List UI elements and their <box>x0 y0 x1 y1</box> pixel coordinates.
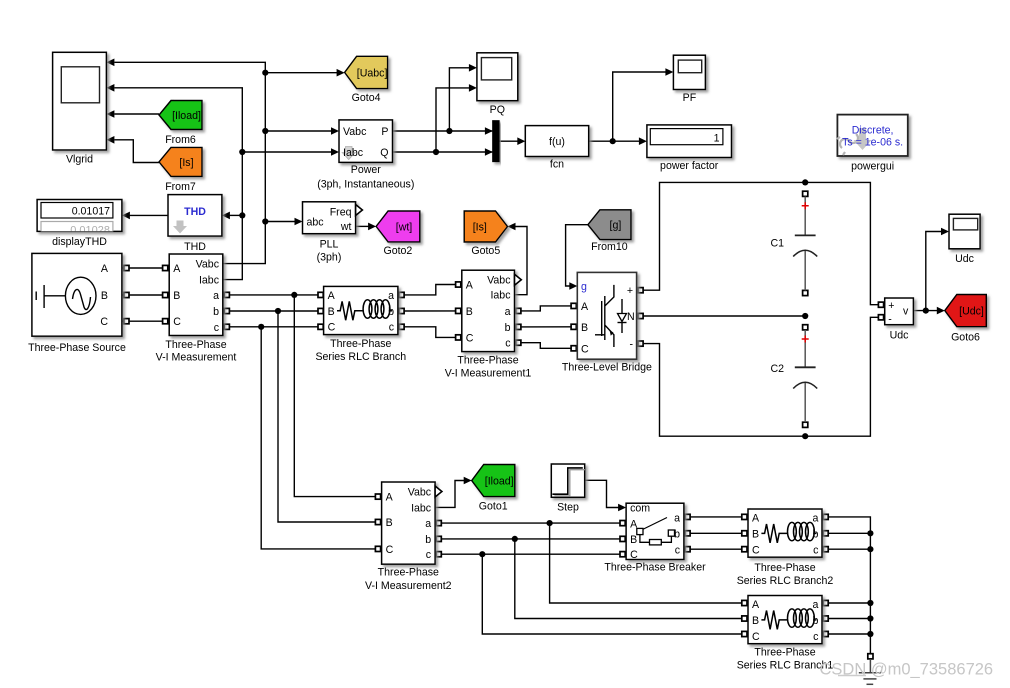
wire phase a drop to RLC branch1 <box>550 523 748 603</box>
Power (3ph Instantaneous) block <box>339 120 393 162</box>
svg-text:[Uabc]: [Uabc] <box>357 67 388 79</box>
svg-text:c: c <box>813 631 819 643</box>
svg-text:B: B <box>173 290 180 302</box>
svg-text:A: A <box>752 599 760 611</box>
wire P output to mux and PQ scope <box>393 130 493 132</box>
THD block <box>168 195 222 237</box>
display displayTHD <box>37 200 122 232</box>
wire From10 to bridge gate <box>566 225 588 286</box>
svg-text:C: C <box>328 322 336 334</box>
svg-text:C: C <box>466 332 474 344</box>
svg-text:-: - <box>629 339 633 351</box>
capacitor C2 <box>793 330 817 422</box>
mux block <box>493 121 499 161</box>
wire phase A drop to measurement2 <box>294 295 381 497</box>
wire Q output to mux and PQ scope <box>393 151 493 153</box>
svg-text:Three-Phase: Three-Phase <box>165 339 226 351</box>
svg-text:PQ: PQ <box>490 104 505 116</box>
svg-text:V-I Measurement: V-I Measurement <box>156 352 237 364</box>
wire phase b measurement1 to bridge B <box>515 326 578 328</box>
From10 tag [g] <box>588 210 631 240</box>
wire fcn to power factor display and PF scope <box>589 140 641 142</box>
svg-text:1: 1 <box>714 132 720 144</box>
wire phase B source to measurement <box>122 294 169 296</box>
svg-text:C2: C2 <box>770 363 784 375</box>
wire RLC branch1 c to bus <box>822 633 870 635</box>
svg-text:c: c <box>505 338 511 350</box>
svg-text:fcn: fcn <box>550 159 564 171</box>
fcn block f(u) <box>525 126 588 157</box>
svg-text:Iabc: Iabc <box>199 275 220 287</box>
svg-text:A: A <box>173 263 181 275</box>
svg-text:f(u): f(u) <box>549 136 565 148</box>
svg-text:A: A <box>752 512 760 524</box>
svg-text:Three-Phase: Three-Phase <box>754 562 815 574</box>
svg-text:C: C <box>100 316 108 328</box>
svg-text:B: B <box>581 322 588 334</box>
svg-text:displayTHD: displayTHD <box>52 236 107 248</box>
svg-text:Step: Step <box>557 502 579 514</box>
wire Iabc1 to Goto5 <box>514 227 528 295</box>
svg-text:C: C <box>630 549 638 561</box>
Goto4 tag [Uabc] <box>345 56 388 88</box>
wire phase C drop to measurement2 <box>261 327 381 549</box>
From6 tag [Iload] <box>159 101 202 130</box>
svg-text:V-I Measurement1: V-I Measurement1 <box>445 368 532 380</box>
wire phase A source to measurement <box>122 267 169 269</box>
junction dots <box>262 70 268 76</box>
Goto2 tag [wt] <box>376 211 420 242</box>
power factor display <box>647 125 732 158</box>
svg-text:c: c <box>426 549 432 561</box>
wire phase b measurement to RLC branch <box>223 310 324 312</box>
svg-text:Freq: Freq <box>330 206 352 218</box>
electrical port markers <box>124 265 129 270</box>
wire phase a measurement2 to breaker A <box>435 522 626 524</box>
svg-text:Power: Power <box>351 164 381 176</box>
Three-Phase Source block <box>32 253 122 336</box>
wire phase b RLC branch to measurement1 <box>398 310 462 312</box>
Three-Phase Series RLC Branch block <box>324 286 398 334</box>
svg-text:abc: abc <box>307 217 325 229</box>
svg-text:Three-Phase Breaker: Three-Phase Breaker <box>604 562 706 574</box>
Three-Phase Series RLC Branch2 block <box>748 509 822 557</box>
PLL (3ph) block <box>303 202 356 234</box>
svg-text:Three-Phase Source: Three-Phase Source <box>28 342 126 354</box>
wire Goto4 branch <box>265 72 338 74</box>
Goto5 tag [Is] <box>464 211 507 242</box>
svg-text:B: B <box>752 529 759 541</box>
svg-text:a: a <box>388 290 394 302</box>
wire phase a measurement1 to bridge A <box>515 306 578 311</box>
svg-text:b: b <box>213 306 219 318</box>
svg-text:THD: THD <box>184 206 206 218</box>
svg-text:Iabc: Iabc <box>411 502 432 514</box>
svg-text:B: B <box>466 306 473 318</box>
svg-text:a: a <box>425 518 431 530</box>
svg-text:Iabc: Iabc <box>343 147 364 159</box>
svg-text:Discrete,: Discrete, <box>852 125 894 137</box>
wire phase b drop to RLC branch1 <box>515 539 748 619</box>
svg-text:Goto4: Goto4 <box>352 92 381 104</box>
svg-text:A: A <box>386 492 394 504</box>
svg-text:C1: C1 <box>770 238 784 250</box>
Three-Phase V-I Measurement1 block <box>462 270 515 351</box>
wire RLC branch1 a to bus <box>822 602 870 604</box>
svg-text:(3ph): (3ph) <box>317 252 342 264</box>
Step block <box>551 464 584 497</box>
svg-text:B: B <box>386 517 393 529</box>
svg-text:+: + <box>888 300 894 312</box>
svg-text:From7: From7 <box>165 181 196 193</box>
svg-text:c: c <box>214 322 220 334</box>
svg-text:[Iload]: [Iload] <box>172 110 201 122</box>
svg-text:Goto5: Goto5 <box>471 245 500 257</box>
wire breaker to RLC branch2 phase c <box>684 548 748 550</box>
Three-Level Bridge block <box>577 272 636 359</box>
svg-text:C: C <box>386 544 394 556</box>
wire phase c measurement2 to breaker C <box>435 553 626 555</box>
svg-text:wt: wt <box>340 221 352 233</box>
wire Udc measure output to scope and Goto6 <box>913 310 938 312</box>
wire phase a measurement to RLC branch <box>223 294 324 296</box>
wire bridge minus output to DC bus bottom <box>637 317 885 436</box>
wire Iload to Goto1 <box>435 481 465 508</box>
wire mux to fcn <box>499 140 519 142</box>
wire Power Vabc branch <box>265 130 332 132</box>
svg-text:B: B <box>101 290 108 302</box>
svg-text:b: b <box>388 306 394 318</box>
Goto6 tag [Udc] <box>945 295 987 327</box>
powergui block <box>837 115 907 156</box>
svg-text:From10: From10 <box>591 241 628 253</box>
wire From6 to Vlgrid <box>114 113 159 115</box>
svg-text:B: B <box>630 534 637 546</box>
Three-Phase V-I Measurement2 block <box>382 482 436 564</box>
voltage measurement Udc block <box>885 298 914 325</box>
wire bridge neutral to capacitor midpoint <box>637 315 806 317</box>
scope Vlgrid <box>53 52 107 150</box>
svg-text:[g]: [g] <box>610 220 622 232</box>
wire RLC branch2 c to bus <box>822 548 870 550</box>
svg-text:a: a <box>505 306 511 318</box>
svg-text:PLL: PLL <box>320 239 339 251</box>
wire Iabc net vertical trunk <box>114 88 242 280</box>
svg-text:A: A <box>581 301 589 313</box>
Three-Phase Series RLC Branch1 block <box>748 596 822 644</box>
signal arrows <box>106 59 114 67</box>
svg-text:PF: PF <box>683 92 697 104</box>
svg-text:[Iload]: [Iload] <box>485 476 514 488</box>
svg-text:b: b <box>505 322 511 334</box>
wire phase c drop to RLC branch1 <box>482 554 748 634</box>
svg-text:Three-Level Bridge: Three-Level Bridge <box>562 362 652 374</box>
svg-text:[wt]: [wt] <box>396 221 413 233</box>
svg-text:Three-Phase: Three-Phase <box>754 647 815 659</box>
svg-text:B: B <box>752 615 759 627</box>
wire phase a RLC branch to measurement1 <box>398 285 462 295</box>
capacitor C1 <box>793 197 817 291</box>
wire bridge plus output to DC bus top <box>637 182 885 304</box>
svg-text:a: a <box>213 290 219 302</box>
svg-text:Vabc: Vabc <box>487 275 511 287</box>
svg-text:C: C <box>581 343 589 355</box>
wire phase b measurement2 to breaker B <box>435 538 626 540</box>
svg-text:v: v <box>903 306 909 318</box>
svg-text:A: A <box>466 279 474 291</box>
wire Power Iabc branch <box>242 151 332 153</box>
wire RLC branch2 b to bus <box>822 532 870 534</box>
svg-text:B: B <box>328 306 335 318</box>
svg-text:C: C <box>752 631 760 643</box>
svg-text:a: a <box>674 512 680 524</box>
wire PLL abc branch <box>265 221 296 223</box>
scope Udc <box>949 214 980 249</box>
wire breaker to RLC branch2 phase b <box>684 532 748 534</box>
wire phase C source to measurement <box>122 320 169 322</box>
svg-text:b: b <box>812 529 818 541</box>
wire From7 to Vlgrid <box>114 140 159 163</box>
svg-text:[Udc]: [Udc] <box>959 306 984 318</box>
svg-text:Three-Phase: Three-Phase <box>378 567 439 579</box>
svg-text:Udc: Udc <box>890 330 910 342</box>
wire phase B drop to measurement2 <box>278 311 382 522</box>
svg-text:[Is]: [Is] <box>473 222 487 234</box>
scope PF <box>673 55 705 89</box>
wire Vabc net vertical trunk <box>114 62 265 263</box>
svg-text:Series RLC Branch2: Series RLC Branch2 <box>737 575 834 587</box>
wire RLC branch1 b to bus <box>822 618 870 620</box>
svg-text:Udc: Udc <box>955 253 975 265</box>
svg-text:A: A <box>328 290 336 302</box>
Three-Phase V-I Measurement block <box>169 254 223 336</box>
svg-text:power factor: power factor <box>660 160 719 172</box>
svg-text:[Is]: [Is] <box>179 157 193 169</box>
svg-text:Vabc: Vabc <box>343 126 367 138</box>
svg-text:b: b <box>425 534 431 546</box>
svg-text:THD: THD <box>184 241 206 253</box>
wire THD input branch <box>228 214 242 216</box>
svg-text:(3ph, Instantaneous): (3ph, Instantaneous) <box>317 179 414 191</box>
svg-text:c: c <box>389 322 395 334</box>
svg-text:Three-Phase: Three-Phase <box>330 338 391 350</box>
svg-text:Goto1: Goto1 <box>479 501 508 513</box>
svg-text:Iabc: Iabc <box>490 290 511 302</box>
svg-text:c: c <box>813 544 819 556</box>
ground symbol <box>859 659 881 684</box>
svg-text:Vabc: Vabc <box>196 259 220 271</box>
svg-text:c: c <box>675 545 681 557</box>
svg-text:a: a <box>812 599 818 611</box>
Three-Phase Breaker block <box>626 503 684 559</box>
wire phase c measurement1 to bridge C <box>515 343 578 349</box>
svg-text:-: - <box>888 314 892 326</box>
wire breaker to RLC branch2 phase a <box>684 516 748 518</box>
svg-text:Ts = 1e-06 s.: Ts = 1e-06 s. <box>842 137 903 149</box>
svg-text:0.01017: 0.01017 <box>72 206 110 218</box>
svg-text:a: a <box>812 512 818 524</box>
svg-text:powergui: powergui <box>851 161 894 173</box>
svg-text:+: + <box>627 285 633 297</box>
svg-text:Vabc: Vabc <box>408 487 432 499</box>
svg-text:N: N <box>627 311 635 323</box>
wire THD output to displayTHD <box>128 214 168 216</box>
svg-text:Series RLC Branch: Series RLC Branch <box>315 351 406 363</box>
wire PLL wt to Goto2 <box>356 225 371 227</box>
svg-text:Vlgrid: Vlgrid <box>66 154 93 166</box>
svg-text:A: A <box>101 263 109 275</box>
wire load bus vertical to ground <box>822 517 870 656</box>
scope PQ <box>477 53 518 101</box>
svg-text:Goto2: Goto2 <box>383 245 412 257</box>
svg-text:com: com <box>630 503 650 515</box>
svg-text:C: C <box>752 544 760 556</box>
svg-text:C: C <box>173 316 181 328</box>
svg-text:Three-Phase: Three-Phase <box>457 355 518 367</box>
wire phase c RLC branch to measurement1 <box>398 327 462 338</box>
svg-text:g: g <box>581 281 587 293</box>
svg-text:From6: From6 <box>165 134 196 146</box>
wire Step to breaker com <box>585 480 620 507</box>
Goto1 tag [Iload] <box>472 465 515 497</box>
wire phase c measurement to RLC branch <box>223 326 324 328</box>
svg-text:b: b <box>812 615 818 627</box>
svg-text:P: P <box>381 126 388 138</box>
svg-text:Q: Q <box>380 147 388 159</box>
From7 tag [Is] <box>159 147 202 176</box>
svg-text:Goto6: Goto6 <box>951 332 980 344</box>
svg-text:V-I Measurement2: V-I Measurement2 <box>365 580 452 592</box>
